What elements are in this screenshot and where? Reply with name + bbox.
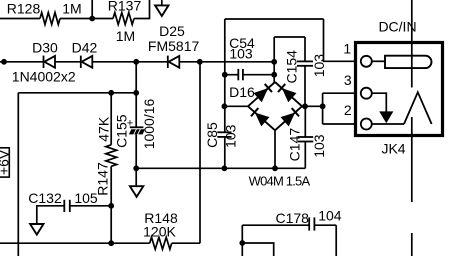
wire bbox=[323, 92, 355, 94]
bridge rectifier D16 outline bbox=[248, 82, 275, 106]
svg-text:1M: 1M bbox=[62, 1, 81, 17]
wire bbox=[55, 61, 81, 63]
label R147 bbox=[95, 162, 111, 196]
bridge diode bottom-right bbox=[281, 113, 294, 125]
wire bbox=[314, 224, 336, 226]
ground bbox=[30, 224, 43, 235]
node junction bbox=[197, 59, 203, 65]
wire bbox=[179, 61, 274, 63]
wire bbox=[241, 225, 243, 256]
svg-text:D16: D16 bbox=[229, 84, 255, 100]
node junction bbox=[108, 90, 114, 96]
node junction bbox=[271, 59, 277, 65]
jack sleeve lever bbox=[404, 92, 432, 124]
wire bbox=[274, 130, 276, 168]
label R147 value 47K bbox=[95, 116, 111, 142]
wire bbox=[0, 18, 40, 20]
wire bbox=[110, 166, 112, 243]
capacitor C85 bbox=[217, 131, 231, 133]
node junction bbox=[271, 72, 277, 78]
wire bbox=[70, 205, 111, 207]
wire bbox=[224, 105, 248, 107]
wire bbox=[225, 18, 324, 20]
capacitor C132 bbox=[63, 200, 65, 212]
node junction bbox=[133, 165, 139, 171]
node junction bbox=[239, 240, 245, 246]
resistor R147 bbox=[106, 145, 117, 167]
pin 2 contact bbox=[361, 119, 372, 130]
pin 3 contact bbox=[361, 88, 372, 99]
wire bbox=[110, 93, 112, 145]
diode D30 bbox=[43, 56, 45, 68]
wire bbox=[225, 74, 239, 76]
wire bbox=[411, 117, 413, 202]
node junction bbox=[108, 240, 114, 246]
svg-text:47K: 47K bbox=[95, 116, 111, 142]
jack sleeve wire bbox=[372, 123, 404, 125]
resistor R128 bbox=[40, 13, 60, 25]
svg-text:C147: C147 bbox=[286, 128, 302, 162]
label C154 bbox=[284, 50, 300, 84]
svg-text:R128: R128 bbox=[7, 1, 41, 17]
wire bbox=[135, 93, 137, 127]
capacitor C155 bbox=[130, 126, 144, 128]
wire bbox=[411, 233, 413, 256]
wire bbox=[273, 37, 275, 82]
svg-text:W04M 1.5A: W04M 1.5A bbox=[249, 174, 311, 189]
wire bbox=[199, 62, 201, 243]
bridge diode right-top bbox=[283, 89, 296, 101]
svg-text:103: 103 bbox=[311, 134, 327, 158]
node junction bbox=[222, 103, 228, 109]
svg-text:D30: D30 bbox=[32, 39, 58, 55]
pin 1 contact bbox=[361, 56, 372, 67]
svg-text:1N4002x2: 1N4002x2 bbox=[12, 69, 76, 85]
connector JK4 body bbox=[356, 43, 443, 136]
wire bbox=[304, 37, 306, 61]
wire bbox=[242, 224, 309, 226]
jack switch contact arrow bbox=[372, 93, 387, 112]
svg-text:C155: C155 bbox=[114, 114, 130, 148]
label C85 value 103 bbox=[223, 124, 239, 148]
wire bbox=[324, 19, 356, 61]
svg-text:1M: 1M bbox=[116, 28, 135, 44]
node junction bbox=[108, 203, 114, 209]
wire bbox=[302, 105, 323, 107]
svg-text:3: 3 bbox=[344, 72, 352, 88]
wire bbox=[224, 75, 226, 133]
diode D25 bbox=[167, 56, 169, 68]
wire bbox=[242, 243, 273, 256]
node junction bbox=[133, 59, 139, 65]
svg-text:C178: C178 bbox=[275, 210, 309, 226]
node junction bbox=[272, 165, 278, 171]
svg-text:105: 105 bbox=[74, 190, 98, 206]
label C85 bbox=[204, 122, 220, 148]
wire bbox=[274, 36, 305, 38]
svg-text:2: 2 bbox=[344, 102, 352, 118]
node junction bbox=[320, 103, 326, 109]
capacitor C147 bbox=[298, 136, 313, 138]
wire bbox=[304, 142, 306, 169]
label C147 value 103 bbox=[311, 134, 327, 158]
svg-text:D42: D42 bbox=[72, 39, 98, 55]
label C155 value 1000/16 bbox=[141, 98, 157, 149]
svg-text:C85: C85 bbox=[204, 122, 220, 148]
node junction bbox=[302, 103, 308, 109]
wire bbox=[37, 206, 65, 224]
wire bbox=[92, 61, 168, 63]
svg-text:JK4: JK4 bbox=[381, 141, 405, 157]
resistor R148 bbox=[150, 237, 172, 249]
wire bbox=[335, 225, 337, 256]
capacitor C178 bbox=[308, 217, 310, 230]
jack center pin bbox=[372, 60, 385, 62]
wire bbox=[135, 62, 137, 93]
wire bbox=[172, 242, 200, 244]
svg-text:D25: D25 bbox=[159, 23, 185, 39]
capacitor C54 bbox=[237, 69, 239, 80]
svg-text:103: 103 bbox=[229, 45, 253, 61]
ground bbox=[161, 0, 163, 5]
wire bbox=[0, 61, 44, 63]
svg-text:120K: 120K bbox=[143, 223, 176, 239]
wire bbox=[134, 0, 150, 19]
label C154 value 103 bbox=[311, 54, 327, 78]
wire bbox=[304, 66, 306, 107]
svg-text:+6V: +6V bbox=[0, 149, 11, 175]
node junction bbox=[222, 72, 228, 78]
svg-text:103: 103 bbox=[311, 54, 327, 78]
bridge diode left-top bbox=[254, 89, 267, 101]
label C147 bbox=[286, 128, 302, 162]
resistor R137 bbox=[113, 13, 134, 25]
svg-text:FM5817: FM5817 bbox=[148, 38, 200, 54]
wire bbox=[0, 242, 150, 244]
node junction bbox=[89, 16, 95, 22]
wire bbox=[322, 93, 324, 124]
diode D42 bbox=[80, 56, 82, 68]
node junction bbox=[133, 90, 139, 96]
svg-text:1: 1 bbox=[343, 41, 351, 57]
svg-text:DC/IN: DC/IN bbox=[378, 19, 416, 35]
wire bbox=[411, 0, 413, 88]
wire bbox=[136, 167, 305, 169]
svg-text:R137: R137 bbox=[108, 0, 142, 13]
svg-text:C154: C154 bbox=[284, 50, 300, 84]
wire bbox=[304, 106, 306, 137]
svg-text:104: 104 bbox=[318, 208, 342, 224]
wire bbox=[91, 0, 93, 19]
bridge diode bottom-left bbox=[256, 113, 269, 125]
svg-text:1000/16: 1000/16 bbox=[141, 98, 157, 149]
wire bbox=[135, 134, 137, 168]
node junction bbox=[1, 59, 7, 65]
label C155 bbox=[114, 114, 130, 148]
wire bbox=[243, 74, 274, 76]
wire bbox=[224, 137, 226, 168]
capacitor C154 bbox=[297, 60, 313, 62]
wire bbox=[18, 92, 136, 94]
svg-text:C132: C132 bbox=[28, 190, 62, 206]
wire bbox=[60, 18, 113, 20]
net label +6V bbox=[0, 148, 9, 177]
wire bbox=[224, 19, 226, 75]
ground bbox=[135, 168, 137, 186]
wire bbox=[323, 123, 355, 125]
node junction bbox=[222, 165, 228, 171]
wire bbox=[17, 93, 19, 256]
